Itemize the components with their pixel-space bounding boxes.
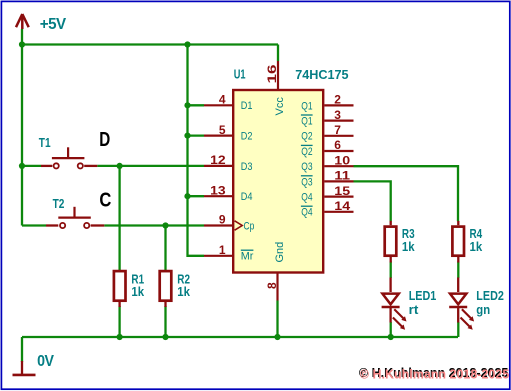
svg-text:2: 2 bbox=[334, 93, 341, 107]
svg-text:T2: T2 bbox=[53, 196, 65, 211]
svg-text:Vcc: Vcc bbox=[274, 97, 286, 116]
svg-text:+5V: +5V bbox=[40, 16, 67, 33]
svg-text:6: 6 bbox=[334, 138, 341, 152]
svg-text:LED2: LED2 bbox=[476, 288, 504, 303]
svg-text:Mr: Mr bbox=[241, 251, 254, 263]
svg-text:Cp: Cp bbox=[244, 220, 255, 232]
svg-text:Gnd: Gnd bbox=[274, 242, 286, 263]
svg-text:5: 5 bbox=[219, 123, 226, 137]
svg-text:Q2: Q2 bbox=[301, 146, 312, 158]
svg-text:11: 11 bbox=[334, 169, 350, 183]
svg-text:D: D bbox=[99, 129, 110, 151]
svg-text:14: 14 bbox=[334, 199, 350, 213]
svg-text:1k: 1k bbox=[470, 239, 483, 254]
svg-text:Q2: Q2 bbox=[301, 131, 312, 143]
svg-text:D1: D1 bbox=[241, 100, 253, 112]
svg-text:9: 9 bbox=[219, 213, 226, 227]
svg-text:Q4: Q4 bbox=[301, 192, 312, 204]
svg-text:Q3: Q3 bbox=[301, 176, 312, 188]
svg-text:C: C bbox=[99, 190, 111, 212]
svg-text:D4: D4 bbox=[241, 191, 253, 203]
svg-text:13: 13 bbox=[210, 183, 226, 197]
svg-text:D3: D3 bbox=[241, 161, 253, 173]
svg-text:LED1: LED1 bbox=[409, 288, 437, 303]
svg-text:10: 10 bbox=[334, 153, 350, 167]
svg-text:Q1: Q1 bbox=[301, 100, 312, 112]
svg-text:gn: gn bbox=[476, 302, 490, 317]
svg-text:1k: 1k bbox=[177, 284, 190, 299]
svg-text:Q3: Q3 bbox=[301, 161, 312, 173]
svg-text:1k: 1k bbox=[131, 284, 144, 299]
svg-text:74HC175: 74HC175 bbox=[295, 67, 348, 82]
svg-text:15: 15 bbox=[334, 184, 350, 198]
svg-text:Q4: Q4 bbox=[301, 207, 312, 219]
svg-text:8: 8 bbox=[265, 282, 279, 289]
svg-text:1k: 1k bbox=[402, 239, 415, 254]
svg-text:16: 16 bbox=[265, 64, 279, 83]
svg-text:1: 1 bbox=[219, 243, 226, 257]
svg-text:rt: rt bbox=[409, 302, 419, 317]
svg-text:0V: 0V bbox=[37, 353, 54, 370]
svg-text:Q1: Q1 bbox=[301, 116, 312, 128]
svg-text:© H.Kuhlmann 2018-2025: © H.Kuhlmann 2018-2025 bbox=[360, 366, 510, 381]
svg-text:7: 7 bbox=[334, 123, 341, 137]
svg-text:3: 3 bbox=[334, 108, 341, 122]
svg-text:4: 4 bbox=[219, 93, 226, 107]
svg-text:T1: T1 bbox=[39, 135, 51, 150]
svg-text:D2: D2 bbox=[241, 131, 253, 143]
svg-text:U1: U1 bbox=[234, 67, 246, 82]
svg-text:12: 12 bbox=[210, 153, 226, 167]
